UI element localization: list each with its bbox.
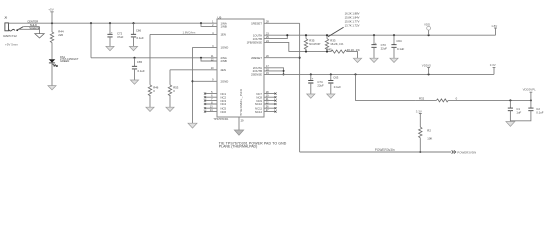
svg-text:U9: U9 — [218, 15, 222, 19]
ground (DS1) — [48, 86, 56, 90]
svg-text:1INB: 1INB — [221, 25, 227, 29]
wire: bottom POWER3V3IN line — [300, 151, 451, 153]
wire: shield/sleeve down to ground — [39, 27, 41, 34]
svg-text:22uF: 22uF — [317, 83, 324, 87]
svg-text:C65: C65 — [137, 60, 143, 64]
node: C65 junction — [133, 57, 135, 59]
ground (C1/C2) — [506, 122, 515, 127]
svg-text:1RESET: 1RESET — [251, 21, 262, 25]
svg-text:NC12: NC12 — [255, 110, 263, 114]
U9 left pin numbers — [210, 21, 214, 112]
svg-text:10K: 10K — [427, 137, 432, 141]
power flag 3.3V at VDDIO rail end — [493, 67, 496, 74]
svg-text:1.8VCAen: 1.8VCAen — [183, 31, 196, 35]
wire: 1OUTB joins 1OUTA — [264, 35, 287, 38]
wire: 1GND — [193, 46, 218, 48]
svg-text:R2: R2 — [427, 129, 431, 133]
svg-text:3.3V: 3.3V — [490, 63, 496, 67]
svg-text:NC6: NC6 — [221, 110, 227, 114]
svg-text:2SENSE: 2SENSE — [251, 73, 262, 77]
node: C72 junction — [109, 22, 111, 24]
svg-text:3.3V: 3.3V — [416, 109, 422, 113]
svg-text:C66: C66 — [136, 28, 142, 32]
ground (C64) — [390, 58, 398, 62]
resistor R46 0 — [149, 34, 151, 84]
capacitor C72 47uF — [109, 23, 111, 34]
svg-text:0.1uF: 0.1uF — [536, 111, 543, 115]
ground (C72) — [106, 46, 114, 50]
svg-text:0.1uF: 0.1uF — [397, 47, 404, 51]
wire: 1INB stub — [201, 23, 217, 26]
wire: DS1 to ground — [51, 63, 53, 85]
wire: jack shield — [24, 26, 40, 28]
node: C63 junction — [330, 73, 332, 75]
node: 2INB tie — [200, 57, 202, 59]
wire: VDDIO rail (2SENSE) — [264, 73, 494, 75]
svg-text:22uF: 22uF — [381, 46, 388, 50]
power flag +5V — [50, 12, 53, 23]
resistor R2 10K — [419, 127, 422, 138]
wire: VDDIO down and right to R32 — [356, 74, 416, 100]
svg-text:0.1uF: 0.1uF — [137, 36, 144, 40]
node: 1INB tie to rail — [200, 22, 202, 24]
svg-text:0.1uF: 0.1uF — [334, 85, 341, 89]
capacitor C1 1uF — [509, 100, 511, 108]
node: C2 junction — [530, 99, 532, 101]
ground (C63) — [327, 94, 335, 98]
svg-text:VDD3VPL: VDD3VPL — [523, 87, 537, 91]
wire: 2EN net — [170, 69, 217, 71]
node: +5V flag / R44 junction — [51, 22, 53, 24]
wire: R32 to PLL filter caps — [448, 99, 531, 101]
capacitor C63 0.1uF — [330, 74, 332, 80]
svg-text:2INB: 2INB — [221, 59, 227, 63]
resistor R44 — [50, 23, 53, 44]
ground (thermal pad) — [234, 130, 243, 135]
U9 right pin names — [247, 21, 263, 113]
svg-text:47uF: 47uF — [117, 35, 124, 39]
power flag VDDIO — [427, 67, 430, 74]
svg-text:GREEN: GREEN — [60, 59, 69, 63]
wire: +5V top rail from jack to U9 pin 1 — [9, 22, 218, 24]
U9 left pin names — [221, 21, 229, 113]
ground (R45) — [353, 58, 361, 62]
svg-text:16.2K 1.88V: 16.2K 1.88V — [345, 11, 360, 15]
capacitor C66 0.1uF — [133, 23, 135, 34]
svg-text:1EN: 1EN — [221, 33, 226, 37]
capacitor C74 22uF — [310, 74, 312, 80]
svg-text:1GND: 1GND — [221, 46, 229, 50]
svg-text:VDD: VDD — [424, 23, 430, 27]
svg-text:NO-POP: NO-POP — [309, 42, 320, 46]
wire: RESET vertical bus down to bottom — [299, 23, 301, 152]
wire: 2INB stub — [201, 58, 217, 61]
resistor R53 0 — [169, 70, 171, 85]
U9 left NC stubs with x marks (pins 5,6,7,8,13,14) — [204, 93, 217, 113]
svg-text:15.0K 1.77V: 15.0K 1.77V — [345, 19, 360, 23]
connector J6 barrel jack body — [5, 23, 23, 31]
wire: jack sleeve — [18, 28, 39, 30]
resistor R35 NO-POP — [305, 35, 307, 38]
svg-text:+5V 5mm: +5V 5mm — [5, 42, 18, 46]
node: R32 branch from VDDIO rail — [354, 73, 356, 75]
resistor R33 16.2K 1% — [326, 35, 328, 38]
svg-text:220: 220 — [58, 33, 63, 37]
svg-text:RAPC712: RAPC712 — [3, 34, 17, 38]
ground (C74) — [307, 94, 315, 98]
svg-text:POWER3v3In: POWER3v3In — [375, 148, 395, 152]
svg-text:2GND: 2GND — [221, 80, 229, 84]
node: VDD flag junction — [428, 34, 430, 36]
wire: 2OUTB — [264, 70, 284, 72]
wire: 1RESET from pin 28 — [264, 22, 300, 24]
LED DS1 LTST-C150GKT GREEN — [49, 59, 58, 66]
node: C73 junction — [373, 34, 375, 36]
wire: 2IN line to U9 pins 11/12 — [91, 57, 217, 59]
svg-text:PLANE (THERMALPAD): PLANE (THERMALPAD) — [219, 144, 257, 148]
svg-text:15.8K 1.84V: 15.8K 1.84V — [345, 15, 360, 19]
wire: 1EN net 1.8VCAen — [150, 33, 217, 35]
U9 right pin numbers — [266, 21, 270, 112]
callout table for R33 values — [345, 11, 360, 27]
node: R2 joins bottom wire — [419, 151, 421, 153]
ground (jack) — [35, 34, 44, 38]
U9 right NC stubs with x marks (pins 18,19,21,22,26,27) — [264, 93, 277, 113]
capacitor C64 0.1uF — [393, 35, 395, 44]
U9 thermal pad pin 29 to ground — [238, 117, 240, 130]
ground (R53) — [166, 107, 174, 111]
node: C74 junction — [310, 73, 312, 75]
ground (C73) — [370, 58, 378, 62]
ground (R46) — [146, 107, 154, 111]
node: 2RESET joins — [299, 57, 301, 59]
svg-text:C63: C63 — [333, 76, 339, 80]
svg-text:THERMAL_PAD: THERMAL_PAD — [239, 88, 243, 115]
svg-text:TPS767D301: TPS767D301 — [213, 118, 229, 121]
node: 2IN branch from +5V rail — [90, 22, 92, 24]
svg-text:0.1uF: 0.1uF — [138, 69, 145, 73]
wire: 2OUTA joins — [264, 68, 284, 75]
wire: FB line to R45 — [289, 51, 331, 53]
power flag VDD3VPL — [530, 92, 533, 100]
node: 2GND joins 1GND — [191, 80, 193, 82]
svg-text:16.2K, 1%: 16.2K, 1% — [330, 42, 343, 46]
svg-text:1uF: 1uF — [516, 111, 521, 115]
callout leader line — [328, 27, 344, 37]
off-page connector POWER3V3IN — [452, 150, 456, 153]
svg-text:1FB/SENSE: 1FB/SENSE — [247, 41, 263, 45]
svg-text:POWER3V3IN: POWER3V3IN — [457, 150, 476, 154]
ground (C66) — [129, 46, 137, 50]
capacitor C2 0.1uF — [530, 100, 532, 108]
wire: C2 bottom over to C1 ground — [510, 111, 531, 121]
wire: R44 to DS1 — [51, 44, 53, 59]
wire: 1GND down to ground bus — [192, 47, 194, 123]
wire: R45 to ground — [347, 52, 358, 59]
svg-text:1.8V: 1.8V — [491, 24, 497, 28]
wire: +5V rail down to 2IN line — [90, 23, 92, 58]
capacitor C65 0.1uF — [134, 58, 136, 66]
node: 2OUT tie onto 2SENSE rail — [282, 73, 284, 75]
node: VDDIO flag junction — [428, 73, 430, 75]
svg-text:13.7K 1.72V: 13.7K 1.72V — [345, 23, 360, 27]
svg-text:+5V: +5V — [48, 7, 53, 11]
capacitor C73 22uF — [373, 35, 375, 44]
svg-text:2RESET: 2RESET — [251, 56, 262, 60]
ground (C65) — [130, 80, 138, 84]
op-amp U1 : regulator IC U9 TPS767D301 body — [217, 19, 264, 117]
svg-text:VDDIO: VDDIO — [422, 64, 432, 68]
wire: 1OUTA rail (1.8V) — [264, 34, 496, 36]
power flag VDD — [428, 30, 430, 35]
node: C1 junction — [509, 99, 511, 101]
node: C64 junction — [393, 34, 395, 36]
power flag 1.8V at rail end — [494, 28, 497, 35]
wire: 2RESET from pin 20 — [264, 57, 300, 59]
svg-text:J6: J6 — [4, 16, 8, 20]
node: 2OUTB junction — [282, 70, 284, 72]
wire: 2GND — [193, 80, 218, 82]
wire: R2 down to POWER3V3IN line — [419, 138, 421, 152]
svg-text:2EN: 2EN — [221, 68, 226, 72]
node: C66 junction — [132, 22, 134, 24]
ground (1GND/2GND) — [188, 123, 197, 128]
wire: 1FB/SENSE down to divider — [264, 42, 289, 51]
svg-text:C64: C64 — [396, 39, 402, 43]
node: 1OUTB junction — [286, 34, 288, 36]
